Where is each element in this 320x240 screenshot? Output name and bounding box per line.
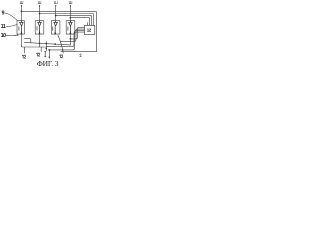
wire terminal 1 [20,6,22,21]
node bus-branch3 [54,43,56,45]
wire terminal 3 [55,6,57,21]
wire branch1 right stub [24,39,30,43]
switch symbol 3 [54,21,58,34]
wire branch1 lead to bottom bus [21,34,46,47]
wire control c3 output line [49,31,84,50]
node rail2-T2 [39,13,41,15]
node rail4-T4 [70,17,72,19]
wire rail 3 [56,16,92,26]
mark I below vert46 [45,52,46,57]
svg-text:10: 10 [1,33,6,39]
svg-text:Ш: Ш [20,0,24,5]
svg-text:9: 9 [2,11,5,17]
control box 12 [84,25,94,34]
leader 11 [6,24,17,26]
wire branch2 lead [39,34,41,47]
node bus-branch2 [39,42,41,44]
label i1 [21,55,24,58]
wire rail 4 [70,18,89,26]
switch symbol 4 [69,21,73,34]
output arrow down [48,50,50,57]
terminal arrow 1 [21,5,23,7]
leader 9 [5,13,17,20]
switch box 3 [51,21,60,34]
wire terminal 2 [39,6,41,21]
svg-text:Ш: Ш [54,0,58,5]
switch box 1 [17,21,24,34]
wire rail 1 (to bottom return) [21,11,96,51]
wire control c2 to branch3 [60,29,84,41]
terminal arrow 2 [39,5,41,7]
label 2 small [80,54,82,57]
terminal arrow 4 [70,5,72,7]
wire vert46 [45,42,47,51]
wire branch4 lead [69,34,71,45]
wire control c4 to branch2 [46,32,84,47]
wire control c1 to branch4 [70,28,84,39]
terminal arrow 3 [55,5,57,7]
current arrow i2 [40,47,42,52]
wire branch3 diagonal [58,35,63,53]
switch box 4 [66,21,75,34]
leader 10 arrowhead [17,34,20,35]
node output [48,49,50,51]
svg-text:Ш: Ш [69,0,73,5]
node ctrl-branch4 [70,38,72,40]
leader 10 [6,34,16,37]
node rail1-T1 [21,11,23,13]
switch symbol 2 [38,21,42,34]
svg-text:12: 12 [87,27,92,32]
svg-text:11: 11 [1,24,6,30]
switch box 2 [35,21,44,34]
label i2 [36,53,39,56]
node vert46 upper [46,43,48,45]
node vert46 lower [46,48,48,50]
node i3 [62,49,64,51]
svg-text:Ш: Ш [38,0,42,5]
node rail3-T3 [55,15,57,17]
current arrow i1 [24,47,26,53]
wire terminal 4 [69,6,71,21]
wire sloped bus [24,42,70,45]
wire stub into box 12 [87,23,89,26]
label i3 [59,55,62,58]
switch symbol 1 [20,21,24,34]
svg-text:ФИГ. 3: ФИГ. 3 [37,59,59,67]
wire rail 2 [40,14,94,26]
